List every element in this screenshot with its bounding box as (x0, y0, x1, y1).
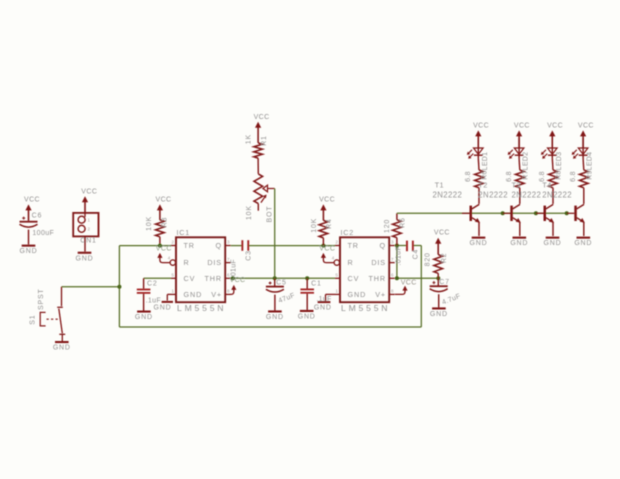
C1 value .1uF (316, 296, 331, 303)
IC1 pin 2 TR stub (171, 240, 176, 246)
CN1 pin circle 1 (78, 216, 90, 223)
C7 label (439, 279, 450, 286)
VCC label at IC2 pin4 (319, 246, 335, 253)
resistor R3 (156, 220, 165, 237)
IC2 pin name THR (369, 274, 386, 283)
svg-text:VCC: VCC (254, 114, 270, 121)
junction R4 on TR2 wire (321, 244, 325, 248)
wire IC1 GND pin elbow (167, 294, 171, 300)
svg-text:TR: TR (348, 241, 359, 250)
svg-text:VCC: VCC (434, 229, 450, 236)
svg-text:6: 6 (391, 273, 394, 279)
wire C3 to IC2 TR (249, 245, 335, 247)
svg-text:LM555N: LM555N (341, 303, 390, 313)
C2 value .1uF (146, 297, 161, 304)
LED3 label (556, 152, 563, 171)
svg-text:1K: 1K (245, 134, 252, 144)
svg-text:2N2222: 2N2222 (512, 190, 542, 199)
IC1 pin 5 CV stub (171, 273, 176, 279)
svg-text:C2: C2 (147, 280, 158, 287)
svg-text:10K: 10K (246, 205, 253, 220)
svg-text:5: 5 (171, 273, 174, 279)
T1 value 2N2222 (433, 190, 463, 199)
power VCC for R2 (434, 229, 450, 254)
R4 value 10K (311, 218, 318, 233)
LED4 to R lead (582, 159, 585, 170)
svg-text:.1uF: .1uF (146, 297, 161, 304)
svg-text:CV: CV (184, 274, 196, 283)
switch S1 top pin (61, 287, 63, 306)
C6 value 100uF (32, 230, 54, 237)
svg-text:DIS: DIS (207, 258, 222, 267)
capacitor C7 electrolytic (430, 281, 448, 291)
resistor R8 (549, 170, 558, 188)
LED LED4 (578, 138, 588, 159)
svg-text:6.8: 6.8 (465, 171, 472, 182)
power VCC for R4 (319, 197, 335, 221)
op-amp IC2 LM555N timer box (340, 237, 389, 302)
C5 value 47uF (278, 292, 297, 305)
svg-text:10K: 10K (146, 216, 153, 231)
op-amp IC1 LM555N timer box (176, 237, 225, 302)
svg-text:6.8: 6.8 (570, 171, 577, 182)
C2 label (147, 280, 158, 287)
R3 label (161, 217, 168, 228)
wire IC2 THR to R2/C7 (395, 277, 438, 279)
capacitor C5 electrolytic (266, 282, 284, 293)
C7 bottom lead (438, 294, 440, 307)
power VCC for LED1 (473, 122, 489, 148)
IC1 pin 4 R circle (168, 256, 176, 266)
wire R5 vertical to THR2 net (396, 246, 398, 279)
C2 bottom lead (143, 294, 145, 311)
ground GND for T2 (510, 237, 528, 248)
transistor Q T1 (462, 188, 480, 236)
switch S1 actuator dashed link (47, 318, 61, 320)
svg-text:3: 3 (391, 240, 394, 246)
IC2 pin 1 GND stub (335, 289, 340, 295)
svg-text:R7: R7 (523, 170, 530, 180)
LED1 to R lead (477, 159, 480, 170)
svg-text:T2: T2 (478, 181, 487, 190)
svg-text:R: R (348, 258, 354, 267)
svg-text:IC1: IC1 (177, 228, 191, 237)
svg-text:R8: R8 (556, 170, 563, 180)
svg-text:R3: R3 (161, 217, 168, 228)
LED1 flash arrows (467, 150, 473, 159)
ground GND for T1 (470, 237, 488, 248)
IC1 pin name GND (184, 290, 203, 299)
resistor R7 (516, 170, 525, 188)
junction R5 net on THR2 (395, 276, 399, 280)
svg-text:C7: C7 (439, 279, 450, 286)
S1 label (30, 315, 37, 325)
svg-text:VCC: VCC (24, 197, 40, 204)
svg-text:1: 1 (171, 289, 174, 295)
capacitor C1 (300, 289, 314, 294)
svg-text:GND: GND (184, 290, 203, 299)
T2 value 2N2222 (478, 190, 508, 199)
wire switch to left rail (62, 286, 120, 288)
potentiometer bottom lead (257, 204, 259, 211)
junction R5 vertical on Q2 wire (395, 244, 399, 248)
T2 label (478, 181, 487, 190)
IC1 pin 8 V+ stub (225, 289, 231, 295)
C2 top lead (143, 278, 145, 288)
C5 bottom lead (274, 295, 276, 311)
C1 label (311, 280, 322, 287)
IC2 pin 4 R circle (332, 256, 340, 266)
wire C4 right to loop (413, 245, 421, 247)
junction R2 and C7 (436, 276, 440, 280)
ground GND for C2 (135, 311, 153, 322)
C7 top lead (437, 278, 439, 286)
svg-text:820: 820 (425, 252, 432, 266)
IC2 pin 2 TR stub (335, 240, 340, 246)
svg-text:R4: R4 (326, 218, 333, 229)
R3 bottom lead (159, 237, 161, 246)
resistor R9 (580, 170, 589, 188)
IC1 value LM555N (177, 303, 226, 313)
C6 bottom lead (28, 230, 30, 245)
svg-text:VCC: VCC (319, 246, 335, 253)
LED LED2 (514, 138, 524, 159)
junction base T4 (565, 211, 569, 215)
ground GND for C5 (266, 310, 284, 321)
svg-text:GND: GND (266, 314, 284, 321)
IC2 pin name TR (348, 241, 359, 250)
C4 label (413, 249, 420, 260)
wire R5 top to transistor bases (397, 212, 567, 214)
svg-text:THR: THR (369, 274, 386, 283)
svg-text:GND: GND (348, 290, 367, 299)
svg-text:R2: R2 (441, 253, 448, 264)
power VCC bent arrow at IC2 pin 4 (321, 253, 334, 263)
R6 label (482, 170, 489, 180)
R5 top lead (396, 213, 398, 220)
CN1 internal pin lead (84, 213, 86, 217)
svg-text:S1: S1 (30, 315, 37, 325)
IC2 pin name R (348, 258, 354, 267)
IC2 pin 8 V+ stub (389, 289, 395, 295)
svg-text:LM555N: LM555N (177, 303, 226, 313)
svg-text:SPST: SPST (38, 288, 45, 309)
CN1 pin circle 2 (78, 225, 90, 232)
svg-text:VCC: VCC (230, 277, 246, 284)
switch S1 lever (59, 309, 63, 334)
switch S1 bottom pin (61, 334, 63, 341)
R1 label (261, 135, 268, 146)
IC1 pin 7 DIS stub (225, 257, 231, 263)
ground GND for IC2 (314, 301, 332, 311)
ground GND for IC1 (154, 301, 173, 312)
transistor Q T4 (567, 188, 585, 236)
svg-text:C1: C1 (311, 280, 322, 287)
R2 label (441, 253, 448, 264)
C3 value .01uF (230, 259, 237, 278)
svg-text:GND: GND (510, 240, 528, 247)
svg-text:VCC: VCC (473, 122, 489, 129)
IC1 pin name TR (184, 241, 195, 250)
ground GND for C7 (430, 307, 448, 318)
svg-text:LED2: LED2 (523, 152, 530, 171)
POT label BOT (267, 206, 274, 223)
wire IC1 CV to C2 (144, 277, 171, 279)
svg-text:VCC: VCC (514, 122, 530, 129)
capacitor C4 (406, 241, 414, 252)
resistor R1 (254, 143, 263, 158)
svg-text:Q: Q (380, 241, 387, 250)
svg-text:LED4: LED4 (587, 152, 594, 171)
svg-text:2N2222: 2N2222 (433, 190, 463, 199)
IC2 pin 3 Q stub (389, 240, 395, 246)
capacitor C2 (137, 289, 151, 294)
svg-text:2: 2 (335, 240, 338, 246)
power VCC for R1 (254, 114, 270, 143)
svg-text:BOT: BOT (267, 206, 274, 223)
R2 bottom lead (437, 273, 439, 278)
power VCC bent arrow at IC1 pin 8 (231, 285, 237, 295)
svg-text:2N2222: 2N2222 (542, 190, 572, 199)
switch S1 top contact (57, 306, 63, 308)
IC2 pin name CV (348, 274, 360, 283)
power VCC bent arrow at IC1 pin 4 (157, 253, 170, 263)
IC2 label (341, 228, 355, 237)
svg-text:T3: T3 (512, 181, 521, 190)
wire IC1 THR to IC2 CV (231, 277, 335, 279)
R5 bottom lead (396, 238, 398, 246)
C3 label (245, 250, 252, 261)
svg-text:GND: GND (154, 305, 172, 312)
LED4 flash arrows (572, 150, 578, 159)
ground GND for T4 (574, 237, 592, 248)
IC1 pin 1 GND stub (171, 289, 176, 295)
T3 value 2N2222 (512, 190, 542, 199)
LED3 flash arrows (541, 150, 547, 159)
svg-text:8: 8 (227, 289, 230, 295)
LED2 label (523, 152, 530, 171)
power VCC for LED4 (578, 122, 594, 148)
switch S1 bottom contact (59, 333, 65, 335)
T4 label (542, 181, 551, 190)
IC1 pin name V+ (211, 290, 222, 299)
svg-text:CN1: CN1 (80, 237, 96, 244)
C1 bottom lead (306, 294, 308, 310)
resistor R6 (475, 170, 484, 188)
ground GND for C6 (20, 245, 38, 256)
R7 label (523, 170, 530, 180)
C7 value 4.7uF (441, 293, 462, 306)
svg-text:CV: CV (348, 274, 360, 283)
IC2 pin name GND (348, 290, 367, 299)
junction VCC at IC1 THR (231, 276, 235, 280)
svg-text:7: 7 (391, 257, 394, 263)
svg-text:4: 4 (168, 256, 171, 262)
svg-text:C4: C4 (413, 249, 420, 260)
junction base T2 (501, 211, 505, 215)
IC1 pin name CV (184, 274, 196, 283)
CN1 label (80, 237, 96, 244)
IC1 pin name Q (216, 241, 223, 250)
wire IC2 GND pin elbow (326, 294, 336, 300)
junction at left rail and switch wire (117, 285, 121, 289)
svg-text:GND: GND (76, 255, 94, 262)
IC1 pin 6 THR stub (225, 273, 231, 279)
C5 label (276, 279, 287, 286)
svg-text:1: 1 (335, 289, 338, 295)
IC1 pin 3 Q stub (225, 240, 231, 246)
power VCC for LED2 (514, 122, 530, 148)
R8 label (556, 170, 563, 180)
LED LED1 (474, 138, 484, 159)
IC1 pin name DIS (207, 258, 222, 267)
CN1 bottom lead (84, 236, 86, 251)
resistor R4 (319, 220, 328, 238)
wire IC2 Q to C4 (395, 245, 407, 247)
C5 top lead (274, 278, 276, 286)
svg-text:GND: GND (470, 240, 488, 247)
svg-text:VCC: VCC (81, 189, 97, 196)
svg-text:GND: GND (53, 345, 71, 352)
C4 value .01uF (395, 246, 402, 265)
T4 value 2N2222 (542, 190, 572, 199)
power VCC for C6 (24, 197, 40, 221)
svg-text:GND: GND (314, 304, 332, 311)
svg-text:T4: T4 (542, 181, 551, 190)
svg-text:5: 5 (335, 273, 338, 279)
power VCC for R3 (156, 197, 172, 220)
junction C1 tap (305, 276, 309, 280)
ground GND for CN1 (76, 252, 94, 263)
ground GND for C1 (298, 310, 316, 321)
svg-text:GND: GND (430, 311, 448, 318)
svg-text:VCC: VCC (578, 122, 594, 129)
svg-text:2N2222: 2N2222 (478, 190, 508, 199)
svg-text:.01uF: .01uF (395, 246, 402, 265)
svg-text:GND: GND (135, 314, 153, 321)
svg-text:120: 120 (384, 219, 391, 233)
svg-text:IC2: IC2 (341, 228, 355, 237)
wire left rail vertical (118, 246, 120, 327)
svg-text:VCC: VCC (401, 280, 417, 287)
IC2 pin 6 THR stub (389, 273, 395, 279)
svg-text:R: R (184, 258, 190, 267)
VCC label at IC1 pin8 (230, 277, 246, 284)
resistor R2 (434, 255, 443, 274)
LED2 to R lead (518, 159, 521, 170)
IC2 value LM555N (341, 303, 390, 313)
ground GND for T3 (544, 237, 562, 248)
svg-text:T1: T1 (435, 181, 444, 190)
T3 label (512, 181, 521, 190)
svg-text:4: 4 (332, 256, 335, 262)
svg-text:V+: V+ (375, 290, 386, 299)
R1 to POT lead (257, 158, 259, 174)
LED2 flash arrows (508, 150, 514, 159)
transistor Q T2 (503, 188, 521, 236)
svg-text:GND: GND (574, 240, 592, 247)
LED4 label (587, 152, 594, 171)
IC2 pin 5 CV stub (335, 273, 340, 279)
wire left rail to IC1 TR (119, 245, 171, 247)
IC1 pin name THR (205, 274, 222, 283)
IC1 pin name R (184, 258, 190, 267)
R9 label (587, 170, 594, 180)
svg-text:V+: V+ (211, 290, 222, 299)
VCC label at IC2 pin8 (401, 280, 417, 287)
VCC label at IC1 pin4 (156, 246, 172, 253)
potentiometer adjust arrow (261, 195, 267, 203)
R8 value 6.8 (539, 171, 546, 182)
svg-text:TR: TR (184, 241, 195, 250)
potentiometer body (254, 174, 263, 204)
svg-text:100uF: 100uF (32, 230, 54, 237)
R5 value 120 (384, 219, 391, 233)
wire right loop vertical (420, 246, 422, 328)
junction base T3 (534, 211, 538, 215)
svg-text:C6: C6 (32, 212, 43, 219)
T1 label (435, 181, 444, 190)
resistor R5 (393, 220, 402, 238)
svg-text:DIS: DIS (371, 258, 386, 267)
svg-text:GND: GND (544, 240, 562, 247)
svg-text:3: 3 (227, 240, 230, 246)
LED3 to R lead (551, 159, 554, 170)
svg-text:.01uF: .01uF (230, 259, 237, 278)
R7 value 6.8 (506, 171, 513, 182)
svg-text:2: 2 (171, 240, 174, 246)
C1 top lead (306, 278, 308, 288)
power VCC bent arrow at IC2 pin 8 (395, 286, 408, 295)
svg-text:GND: GND (20, 248, 38, 255)
R3 value 10K (146, 216, 153, 231)
wire IC1 Q to C3 (231, 245, 242, 247)
svg-text:LED3: LED3 (556, 152, 563, 171)
svg-text:VCC: VCC (319, 197, 335, 204)
IC2 pin name Q (380, 241, 387, 250)
POT value 10K (246, 205, 253, 220)
S1 value SPST (38, 288, 45, 309)
svg-text:VCC: VCC (547, 122, 563, 129)
R1 value 1K (245, 134, 252, 144)
IC2 pin 7 DIS stub (389, 257, 395, 263)
IC2 pin name DIS (371, 258, 386, 267)
svg-text:R6: R6 (482, 170, 489, 180)
svg-text:VCC: VCC (156, 197, 172, 204)
power VCC for CN1 (81, 189, 97, 213)
R4 bottom lead (322, 238, 324, 246)
svg-text:C3: C3 (245, 250, 252, 261)
svg-text:10K: 10K (311, 218, 318, 233)
transistor Q T3 (536, 188, 554, 236)
junction R3 on TR1 wire (158, 244, 162, 248)
svg-text:GND: GND (298, 314, 316, 321)
svg-text:R5: R5 (400, 217, 407, 228)
switch S1 actuator bracket (40, 312, 45, 327)
R5 label (400, 217, 407, 228)
wire bottom long (119, 326, 421, 328)
connector CN1 box (73, 213, 98, 237)
potentiometer wiper (263, 185, 275, 192)
R6 value 6.8 (465, 171, 472, 182)
svg-text:VCC: VCC (156, 246, 172, 253)
R9 value 6.8 (570, 171, 577, 182)
R2 value 820 (425, 252, 432, 266)
IC1 label (177, 228, 191, 237)
LED1 label (482, 152, 489, 171)
svg-text:Q: Q (216, 241, 223, 250)
junction C5 tap (273, 276, 277, 280)
